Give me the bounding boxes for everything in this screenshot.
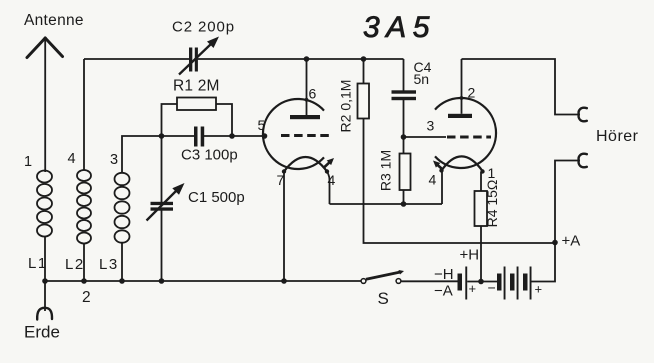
pin 4 dot (V1) xyxy=(325,169,329,173)
wire switch to battery xyxy=(402,280,458,282)
junction R1/C3 left xyxy=(159,133,165,139)
coil L1 xyxy=(37,171,52,237)
resistor R2 xyxy=(358,84,370,119)
wire R3 bottom leg xyxy=(403,190,405,204)
resistor R1 xyxy=(177,98,216,111)
svg-text:Erde: Erde xyxy=(24,323,60,342)
wire R2 bottom to +A rail xyxy=(364,119,556,244)
wire grid axis right xyxy=(204,135,264,137)
pin 2 lead xyxy=(461,59,463,114)
svg-text:R3 1M: R3 1M xyxy=(378,150,394,191)
capacitor C4 xyxy=(392,90,417,93)
wire L2 riser xyxy=(83,59,85,170)
svg-text:1: 1 xyxy=(488,165,496,181)
pin 6 lead xyxy=(306,59,308,115)
wire top rail left of C2 xyxy=(84,58,190,60)
wire antenna lead xyxy=(44,38,46,173)
svg-text:5n: 5n xyxy=(414,71,430,87)
battery A cell 1 negative plate xyxy=(497,274,502,291)
wire R4 bottom to battery tap xyxy=(480,226,482,282)
svg-text:C3 100p: C3 100p xyxy=(181,147,238,164)
capacitor C2 (variable) xyxy=(189,48,192,72)
antenna symbol xyxy=(27,38,63,58)
svg-text:5: 5 xyxy=(258,117,266,133)
svg-text:Hörer: Hörer xyxy=(596,128,639,145)
junction R2 top xyxy=(361,56,367,62)
wire anode rail V2 xyxy=(462,59,579,115)
svg-text:6: 6 xyxy=(309,86,317,102)
svg-text:2: 2 xyxy=(468,85,476,101)
svg-text:+: + xyxy=(469,281,477,296)
svg-text:4: 4 xyxy=(68,151,76,167)
triode V2 filament xyxy=(442,156,483,171)
pin 1 dot xyxy=(480,169,484,173)
wire C1 branch lower xyxy=(161,211,163,282)
wire pin 7 drop xyxy=(283,172,285,282)
battery H cell negative plate xyxy=(458,274,463,291)
triode V1 anode xyxy=(290,115,320,119)
wire L2 bottom xyxy=(83,244,85,282)
wire C1 branch upper xyxy=(161,136,163,203)
pin 7 dot xyxy=(282,169,286,173)
triode V1 envelope flourish xyxy=(324,162,330,167)
svg-text:1: 1 xyxy=(24,154,32,170)
svg-text:L1: L1 xyxy=(28,255,48,272)
wire R1 right leg xyxy=(216,104,232,136)
triode V1 grid xyxy=(281,134,329,137)
wire grid axis left xyxy=(162,135,195,137)
svg-text:−: − xyxy=(488,280,496,296)
triode V2 grid xyxy=(447,136,491,139)
triode V2 envelope xyxy=(435,98,496,168)
svg-text:3: 3 xyxy=(427,118,435,134)
wire C4 top leg xyxy=(403,59,405,91)
pin 6 envelope blob xyxy=(305,98,309,102)
svg-text:L2: L2 xyxy=(65,256,85,273)
battery A cell 1 positive plate xyxy=(504,267,506,300)
coil L2 xyxy=(77,170,91,244)
battery H cell positive plate xyxy=(465,267,467,300)
triode V1 filament xyxy=(284,157,327,172)
battery A cell 3 negative plate xyxy=(523,274,528,291)
junction C1 bottom xyxy=(159,278,165,284)
svg-text:C1 500p: C1 500p xyxy=(188,189,245,206)
wire top rail right of C2 xyxy=(198,58,404,60)
svg-text:C2 200p: C2 200p xyxy=(172,19,235,36)
triode V1 envelope xyxy=(263,99,324,169)
svg-text:+A: +A xyxy=(562,233,581,250)
svg-text:2: 2 xyxy=(82,289,91,306)
capacitor C1 arrow xyxy=(147,191,177,221)
svg-text:−A: −A xyxy=(434,283,453,300)
svg-text:R1 2M: R1 2M xyxy=(173,78,220,95)
triode V2 envelope flourish xyxy=(437,164,442,169)
svg-text:3: 3 xyxy=(110,152,118,168)
svg-text:R2 0,1M: R2 0,1M xyxy=(338,80,354,133)
junction L2 bottom xyxy=(81,278,87,284)
wire bottom rail xyxy=(45,280,361,282)
junction battery tap +H xyxy=(478,279,484,285)
wire A battery to +A xyxy=(532,243,556,282)
wire H cell to A battery xyxy=(467,281,497,283)
wire pin 1 to R4 xyxy=(480,172,482,191)
junction pin6 top xyxy=(304,56,310,62)
phone terminal 2 xyxy=(579,154,587,168)
wire L3 bottom xyxy=(121,243,123,282)
triode V2 anode xyxy=(448,114,472,118)
wire C4 bottom / R3 top xyxy=(403,100,405,154)
wire R1 left leg xyxy=(162,104,178,136)
capacitor C3 xyxy=(194,127,198,147)
junction L1 bottom xyxy=(42,278,48,284)
battery A cell 3 positive plate xyxy=(530,267,532,300)
svg-text:4: 4 xyxy=(429,172,437,188)
svg-text:+H: +H xyxy=(460,247,480,264)
pin 4 dot (V2) xyxy=(439,168,443,172)
junction grid node V2 xyxy=(401,134,407,140)
svg-text:+: + xyxy=(535,282,543,297)
svg-text:L3: L3 xyxy=(99,256,119,273)
junction L3 bottom xyxy=(119,278,125,284)
wire pin 3 lead xyxy=(404,136,447,138)
wire filament rail xyxy=(330,203,443,205)
switch S xyxy=(366,272,401,279)
resistor R3 xyxy=(400,154,411,191)
capacitor C1 (variable) xyxy=(151,202,174,205)
capacitor C2 arrow xyxy=(179,44,211,75)
junction R1/C3 right xyxy=(229,133,235,139)
coil L3 xyxy=(115,173,130,243)
earth terminal hook xyxy=(37,308,52,320)
junction pin7 drop xyxy=(281,278,287,284)
junction R3 bottom xyxy=(401,201,407,207)
wire phone 2 to +A xyxy=(555,161,579,243)
battery A cell 2 positive plate xyxy=(517,267,519,300)
battery A cell 2 negative plate xyxy=(510,274,515,291)
svg-text:S: S xyxy=(378,289,389,308)
junction +A xyxy=(552,240,558,246)
wire earth lead xyxy=(44,281,46,311)
wire pin 4 lead V2 xyxy=(441,172,443,204)
wire L1 bottom xyxy=(44,237,46,282)
svg-text:Antenne: Antenne xyxy=(24,12,84,29)
wire L3 top xyxy=(122,136,162,173)
pin 2 envelope blob xyxy=(460,96,464,100)
pin 5 dot xyxy=(262,133,268,139)
phone terminal 1 xyxy=(579,108,587,122)
svg-text:3A5: 3A5 xyxy=(363,11,436,44)
wire pin 4 lead V1 xyxy=(327,172,330,205)
svg-text:−H: −H xyxy=(434,266,454,283)
resistor R4 xyxy=(475,191,488,226)
wire R2 top leg xyxy=(363,59,365,84)
